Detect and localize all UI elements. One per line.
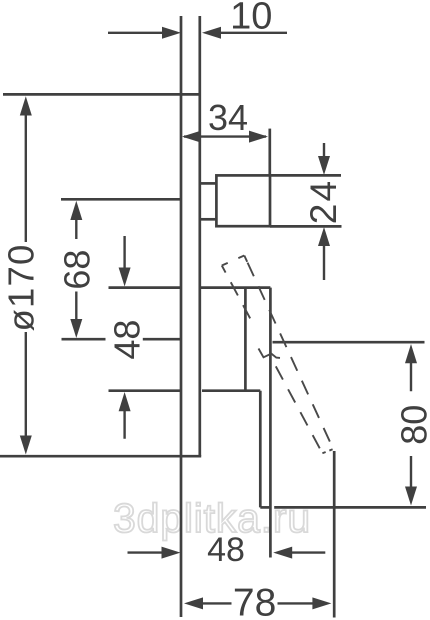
dim 48 bottom shafts: [128, 551, 326, 553]
tube bottom edge: [260, 506, 270, 509]
dim 80 shafts: [410, 363, 412, 487]
svg-text:ø170: ø170: [1, 244, 42, 332]
dim 24 shafts: [323, 143, 325, 280]
dim 10 shafts: [108, 32, 287, 34]
lever upper side corner dash: [244, 256, 247, 262]
svg-text:34: 34: [208, 97, 248, 138]
lever lower side (upper part): [222, 266, 255, 327]
knob neck stub bottom: [201, 218, 216, 221]
body bottom extension (left): [109, 389, 181, 392]
dim 34 line: [184, 135, 266, 137]
34 right extension (knob face line): [268, 129, 271, 176]
svg-text:10: 10: [230, 0, 272, 37]
24 bottom head (points up): [318, 227, 330, 246]
body top extension (left): [109, 286, 181, 289]
knob square: [216, 175, 270, 226]
68 top head (points up): [70, 201, 82, 220]
10 left head (points right): [162, 27, 181, 39]
80 top head (points up): [405, 344, 417, 363]
48 bottom right head (points left): [273, 547, 292, 559]
lever upper side: [244, 256, 333, 449]
24 top head (points down): [318, 156, 330, 175]
knob axis line A: [61, 198, 180, 201]
34 left head (points left): [182, 131, 201, 143]
34 right head (points right): [249, 131, 268, 143]
dim 68 shafts: [75, 219, 77, 332]
lever axis line C: [62, 338, 181, 341]
wall line: [180, 16, 183, 617]
10 right head (points left): [202, 27, 221, 39]
ø170 bottom head (points down): [20, 436, 32, 455]
dim ø170 shafts: [25, 114, 27, 437]
plate top edge / ø170 top extension: [3, 93, 201, 96]
plate bottom edge / ø170 bottom extension: [0, 455, 201, 458]
24 top extension: [270, 174, 341, 177]
dim 78 shafts: [202, 602, 313, 604]
48 left up head: [119, 392, 131, 411]
78 left head (points left): [184, 597, 203, 609]
80 bottom extension: [274, 506, 426, 509]
svg-text:80: 80: [394, 405, 430, 445]
78 right head (points right): [312, 597, 331, 609]
body inner vertical: [244, 288, 247, 391]
68 bottom head (points down): [70, 319, 82, 338]
svg-text:78: 78: [233, 582, 276, 620]
48 left down head: [119, 268, 131, 287]
knob neck stub top: [201, 182, 216, 185]
78 right extension: [333, 451, 336, 618]
svg-text:68: 68: [57, 250, 98, 290]
svg-text:24: 24: [303, 179, 344, 225]
80 bottom head (points down): [405, 487, 417, 506]
lever pivot squiggle: [259, 349, 281, 358]
svg-text:48: 48: [107, 320, 148, 360]
body top edge: [201, 286, 270, 289]
24 bottom extension: [270, 225, 342, 228]
tube left edge: [259, 391, 262, 508]
dim 48 left shafts: [123, 236, 125, 439]
body right edge: [269, 288, 272, 558]
80 top extension: [273, 341, 425, 344]
ø170 top head (points up): [20, 96, 32, 115]
lever bottom cap: [322, 449, 332, 453]
lever top cap: [222, 256, 245, 266]
body bottom edge: [202, 389, 260, 392]
lever lower side (lower part): [273, 360, 323, 453]
plate face line: [198, 16, 201, 456]
48 bottom left head (points right): [162, 547, 181, 559]
svg-text:48: 48: [207, 531, 245, 569]
lever (dashed alternate position): [222, 256, 333, 454]
